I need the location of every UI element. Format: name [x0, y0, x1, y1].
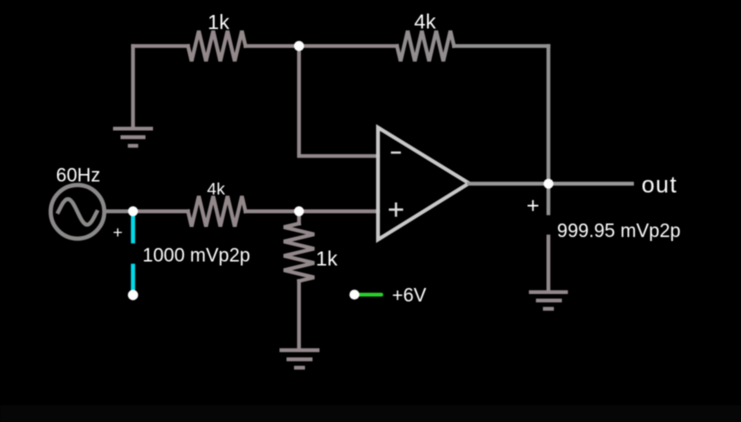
AC source sine symbol: [58, 199, 97, 225]
svg-text:1000 mVp2p: 1000 mVp2p: [143, 246, 251, 267]
svg-text:4k: 4k: [207, 180, 225, 199]
voltmeter bottom lead: [547, 237, 551, 292]
svg-text:out: out: [642, 172, 678, 198]
wire R4 bottom to ground G2: [297, 281, 301, 348]
svg-text:1k: 1k: [316, 247, 338, 270]
node dot OUT: [544, 179, 554, 189]
resistor R4 1k (to ground): [284, 224, 314, 282]
ground G3: [529, 292, 568, 309]
resistor R1 1k (top left): [188, 31, 246, 61]
wire node A down to inverting input: [299, 46, 378, 156]
wire R3 right to noninverting input: [246, 209, 379, 213]
terminal dot +6V: [349, 290, 359, 300]
wire op-amp output: [469, 182, 632, 186]
svg-text:60Hz: 60Hz: [56, 166, 100, 187]
wire feedback vertical: [547, 46, 551, 184]
ground G2: [280, 350, 320, 368]
svg-text:+: +: [527, 193, 540, 218]
svg-text:1k: 1k: [208, 11, 230, 34]
voltmeter top lead: [547, 184, 551, 214]
op-amp minus sign: [392, 152, 400, 154]
wire ground stem G1: [131, 46, 135, 127]
wire +6V (green): [358, 293, 381, 297]
bottom taskbar strip: [0, 405, 741, 422]
selected source lead lower (cyan): [131, 266, 135, 291]
selected source lead upper (cyan): [131, 215, 135, 241]
wire source to node S: [105, 209, 133, 213]
node dot B (noninverting junction): [294, 206, 304, 216]
wire node A to R2 left: [299, 44, 397, 48]
wire node B to R4 top: [297, 211, 301, 223]
ground G1: [113, 129, 153, 146]
wire R2 right to corner: [454, 44, 548, 48]
resistor R3 4k (input): [188, 196, 246, 226]
op-amp U1 body: [378, 128, 469, 240]
svg-text:+6V: +6V: [392, 286, 427, 307]
wire top-left horizontal: [133, 44, 188, 48]
AC source V1 circle: [51, 185, 105, 239]
terminal dot source bottom: [128, 290, 138, 300]
wire node S to R3 left: [133, 209, 188, 213]
wire R1 right to node A: [246, 44, 300, 48]
op-amp plus sign: [390, 204, 402, 216]
resistor R2 4k (feedback): [397, 31, 454, 61]
svg-text:+: +: [113, 223, 123, 242]
node dot A (1k/4k/inverting junction): [294, 41, 304, 51]
node dot S (source/input junction): [128, 206, 138, 216]
svg-text:999.95 mVp2p: 999.95 mVp2p: [557, 221, 681, 242]
svg-text:4k: 4k: [414, 11, 436, 34]
